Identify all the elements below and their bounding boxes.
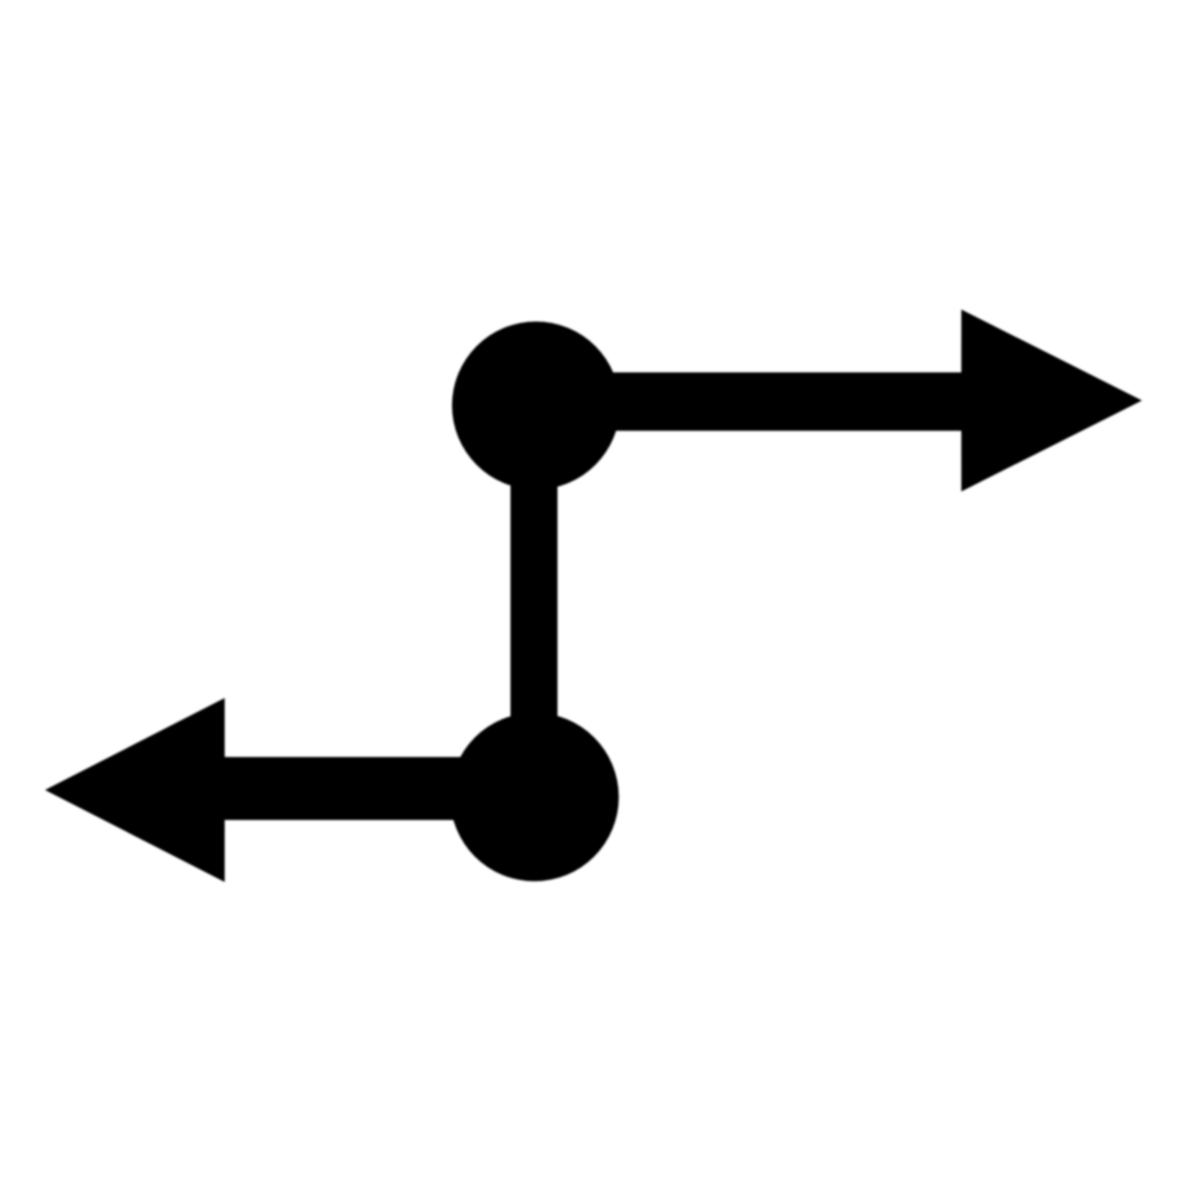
arrowhead (right-pointing) (961, 310, 1142, 492)
wire (upper horizontal segment to right arrow) (536, 372, 962, 430)
node A (upper junction dot) (452, 322, 620, 490)
node B (lower junction dot) (450, 713, 619, 882)
arrowhead (left-pointing) (45, 698, 225, 882)
wire (lower horizontal segment to left arrow) (225, 757, 536, 820)
wire (vertical segment between nodes) (511, 405, 558, 797)
